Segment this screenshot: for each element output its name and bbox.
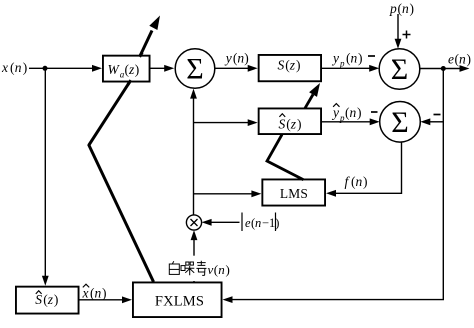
svg-text:): ) [23, 60, 28, 75]
svg-text:n: n [350, 105, 357, 120]
svg-text:FXLMS: FXLMS [155, 293, 204, 309]
svg-text:n: n [15, 60, 22, 75]
svg-text:v: v [208, 262, 214, 277]
svg-text:): ) [102, 286, 107, 301]
svg-text:S: S [278, 58, 285, 73]
svg-text:y: y [331, 105, 339, 120]
svg-text:n: n [459, 52, 466, 67]
svg-text:−1): −1) [262, 216, 279, 230]
svg-text:): ) [357, 105, 362, 120]
svg-text:p: p [339, 59, 345, 69]
svg-text:p: p [389, 1, 397, 16]
svg-text:n: n [95, 286, 102, 301]
svg-text:S: S [35, 292, 42, 307]
svg-text:y: y [224, 51, 232, 66]
svg-text:): ) [297, 116, 302, 131]
svg-text:): ) [467, 52, 472, 67]
svg-text:LMS: LMS [280, 186, 308, 201]
svg-text:): ) [358, 51, 363, 66]
svg-text:): ) [244, 51, 249, 66]
svg-text:z: z [47, 292, 54, 307]
svg-text:Σ: Σ [391, 106, 408, 139]
svg-text:n: n [356, 174, 363, 189]
svg-text:n: n [255, 216, 261, 230]
svg-text:x: x [1, 60, 8, 75]
svg-text:): ) [54, 292, 59, 307]
svg-text:x: x [82, 286, 89, 301]
svg-text:): ) [410, 1, 415, 16]
svg-text:S: S [279, 116, 286, 131]
svg-text:y: y [331, 51, 339, 66]
svg-text:): ) [226, 262, 230, 277]
svg-text:): ) [296, 58, 301, 73]
svg-text:W: W [108, 62, 121, 77]
svg-text:z: z [289, 58, 296, 73]
svg-text:n: n [218, 262, 225, 277]
svg-text:z: z [290, 116, 297, 131]
svg-text:): ) [135, 62, 140, 77]
svg-text:): ) [363, 174, 368, 189]
svg-text:n: n [351, 51, 358, 66]
svg-text:n: n [402, 1, 409, 16]
svg-text:Σ: Σ [186, 53, 203, 86]
svg-text:e: e [448, 52, 454, 67]
svg-text:Σ: Σ [391, 53, 408, 86]
